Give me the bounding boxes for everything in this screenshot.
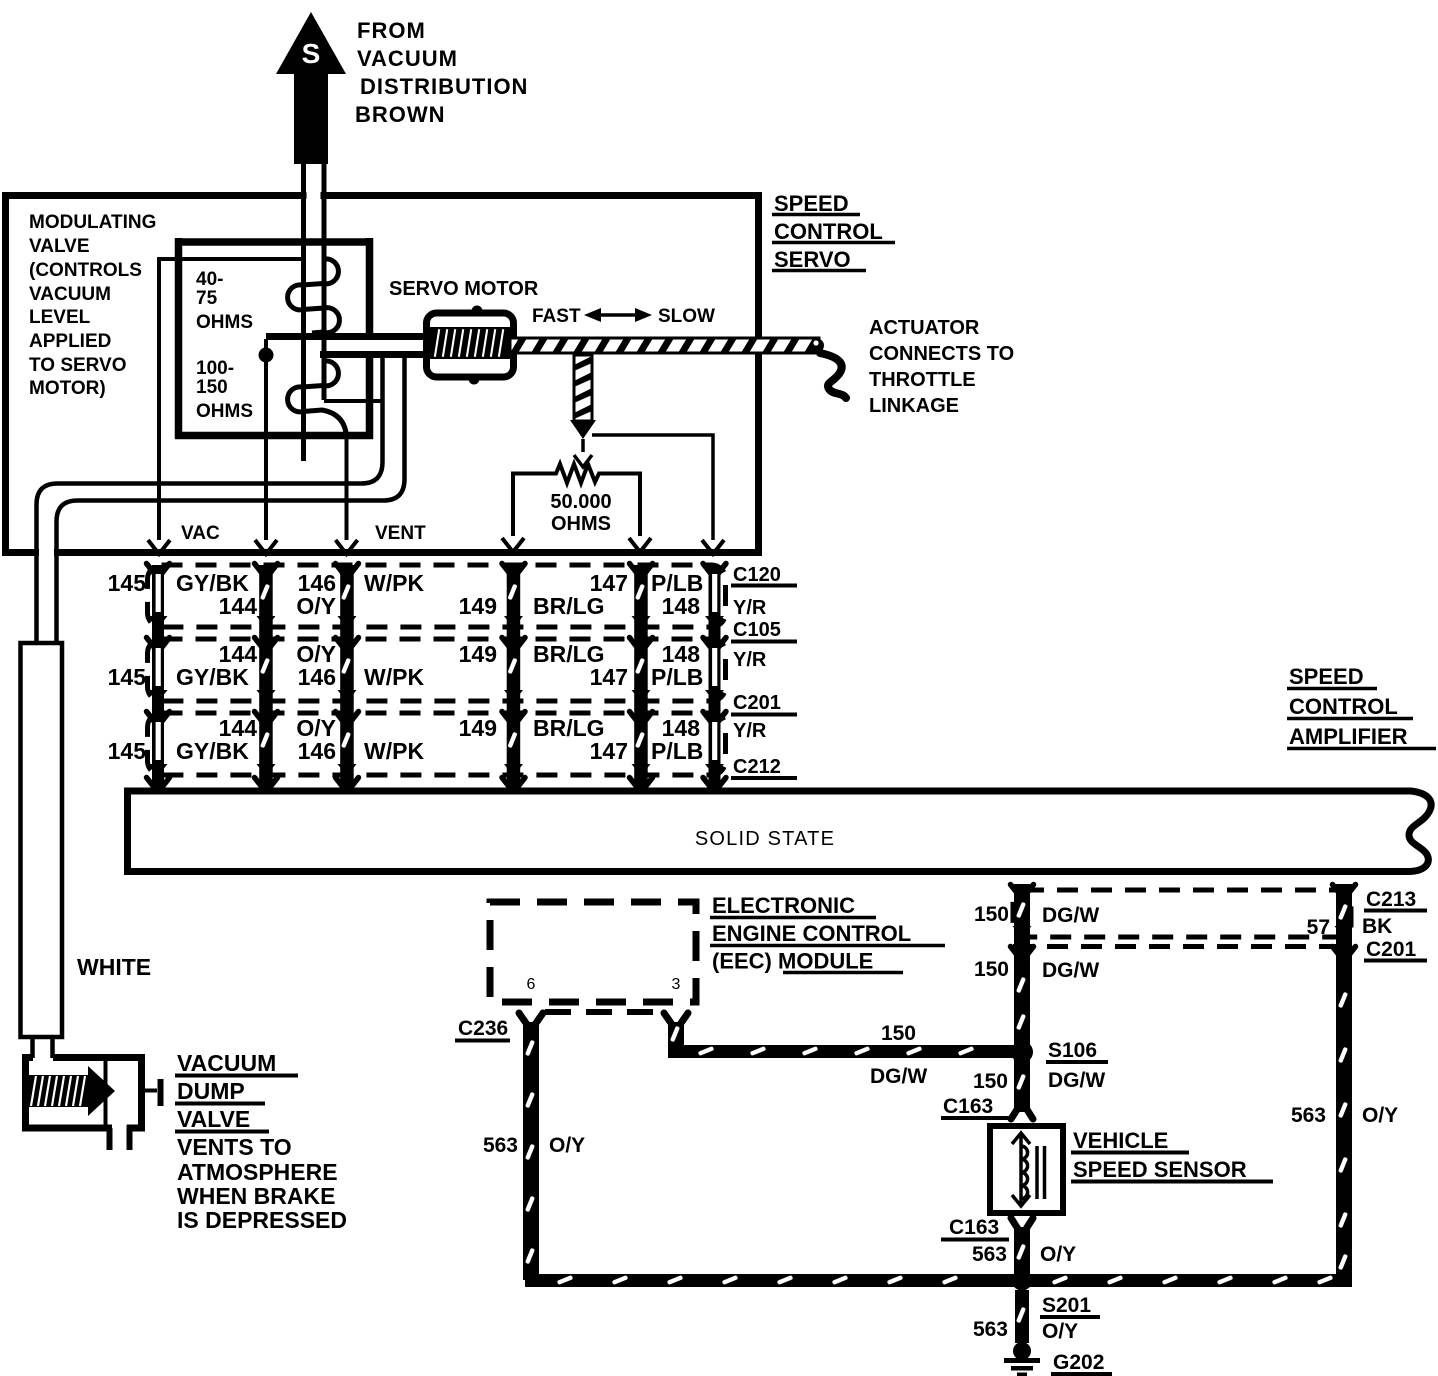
- actuator rod end: [810, 339, 824, 353]
- wire 150 DG/W from pin 3: [664, 1013, 1014, 1088]
- label ACTUATOR CONNECTS TO THROTTLE LINKAGE: [869, 317, 1014, 417]
- svg-text:144: 144: [219, 593, 258, 619]
- svg-text:BK: BK: [1362, 915, 1392, 938]
- svg-text:SERVO: SERVO: [774, 247, 851, 272]
- bottom horizontal wire 563: [525, 1274, 1345, 1287]
- vacuum passage walls to servo motor: [266, 333, 429, 340]
- connector row 2 dashed outline: [148, 639, 726, 701]
- label VACUUM DUMP VALVE: [175, 1050, 347, 1233]
- ground G202: [1004, 1342, 1112, 1376]
- svg-text:VAC: VAC: [181, 523, 220, 544]
- svg-text:OHMS: OHMS: [551, 513, 611, 535]
- svg-text:150: 150: [973, 1070, 1008, 1093]
- svg-text:C212: C212: [733, 756, 781, 778]
- electronic engine control EEC module dashed box: [490, 902, 696, 1002]
- svg-text:S: S: [302, 38, 321, 69]
- svg-text:ENGINE CONTROL: ENGINE CONTROL: [712, 921, 911, 946]
- svg-text:50.000: 50.000: [550, 491, 611, 513]
- svg-text:147: 147: [590, 664, 628, 690]
- svg-text:WHITE: WHITE: [77, 954, 151, 980]
- wire S106 to C163: [1011, 1060, 1033, 1119]
- svg-text:SPEED: SPEED: [774, 191, 849, 216]
- svg-text:GY/BK: GY/BK: [176, 738, 249, 764]
- svg-text:O/Y: O/Y: [1362, 1104, 1398, 1127]
- svg-text:ACTUATOR: ACTUATOR: [869, 317, 980, 339]
- svg-text:VACUUM: VACUUM: [357, 46, 458, 71]
- svg-text:VALVE: VALVE: [29, 236, 90, 257]
- speed control amplifier box SOLID STATE: [124, 788, 1431, 875]
- svg-text:LEVEL: LEVEL: [29, 307, 91, 328]
- speed control servo box: [6, 189, 759, 558]
- svg-text:DG/W: DG/W: [1042, 904, 1099, 927]
- wire bar column 3: [336, 564, 359, 792]
- white hose sleeve: [21, 643, 63, 1037]
- vacuum S-tube: [304, 164, 383, 461]
- svg-text:100-: 100-: [196, 358, 234, 379]
- svg-text:GY/BK: GY/BK: [176, 664, 249, 690]
- svg-text:S106: S106: [1048, 1039, 1097, 1062]
- svg-text:P/LB: P/LB: [651, 738, 703, 764]
- svg-text:146: 146: [298, 664, 336, 690]
- svg-text:VALVE: VALVE: [177, 1106, 250, 1132]
- svg-text:O/Y: O/Y: [549, 1134, 585, 1157]
- svg-text:DG/W: DG/W: [870, 1065, 927, 1088]
- svg-text:C236: C236: [458, 1017, 508, 1040]
- vehicle speed sensor: [990, 1126, 1063, 1213]
- svg-text:563: 563: [972, 1243, 1007, 1266]
- wire S201 to ground: [1015, 1290, 1029, 1343]
- connector C120: [731, 564, 797, 778]
- connector C236 dashed mating line: [545, 1009, 660, 1015]
- svg-text:Y/R: Y/R: [733, 720, 767, 742]
- wire 563 O/Y below sensor: [972, 1227, 1076, 1273]
- svg-text:MOTOR): MOTOR): [29, 378, 106, 399]
- svg-text:150: 150: [881, 1022, 916, 1045]
- svg-text:DISTRIBUTION: DISTRIBUTION: [360, 74, 528, 99]
- svg-text:O/Y: O/Y: [296, 593, 336, 619]
- vacuum dump valve body: [22, 1054, 161, 1150]
- svg-text:6: 6: [527, 976, 536, 993]
- svg-text:LINKAGE: LINKAGE: [869, 395, 959, 417]
- vacuum tube to dump valve outer line: [37, 354, 383, 643]
- svg-text:40-: 40-: [196, 269, 223, 290]
- label 100-150 OHMS: [196, 358, 253, 422]
- svg-text:APPLIED: APPLIED: [29, 331, 111, 352]
- svg-text:146: 146: [298, 738, 336, 764]
- svg-text:145: 145: [108, 738, 147, 764]
- label FAST SLOW with arrows: [532, 306, 715, 327]
- modulating valve coil lower: [288, 361, 347, 437]
- svg-text:SOLID STATE: SOLID STATE: [695, 828, 835, 850]
- actuator rod hatched: [510, 338, 819, 353]
- actuator hook to throttle linkage: [820, 353, 846, 398]
- svg-text:OHMS: OHMS: [196, 312, 253, 333]
- label MODULATING VALVE (CONTROLS VACUUM LEVEL APPLIED TO SERVO MOTOR): [29, 212, 156, 399]
- svg-text:145: 145: [108, 570, 147, 596]
- svg-text:ELECTRONIC: ELECTRONIC: [712, 893, 855, 918]
- svg-text:57: 57: [1307, 916, 1330, 939]
- svg-text:149: 149: [459, 641, 497, 667]
- wire from junction to passage: [264, 339, 268, 355]
- svg-text:W/PK: W/PK: [364, 570, 424, 596]
- svg-text:SPEED: SPEED: [1289, 664, 1364, 689]
- svg-text:C201: C201: [1366, 938, 1417, 961]
- svg-text:FROM: FROM: [357, 18, 426, 43]
- svg-text:TO SERVO: TO SERVO: [29, 355, 127, 376]
- svg-text:OHMS: OHMS: [196, 401, 253, 422]
- svg-text:149: 149: [459, 715, 497, 741]
- hose neck: [33, 1037, 53, 1058]
- svg-text:W/PK: W/PK: [364, 738, 424, 764]
- svg-text:MODULATING: MODULATING: [29, 212, 156, 233]
- svg-text:150: 150: [196, 377, 228, 398]
- servo motor M1: [427, 306, 514, 385]
- svg-text:SLOW: SLOW: [658, 306, 715, 327]
- vertical hatched link from rod: [570, 355, 596, 467]
- svg-text:C201: C201: [733, 692, 781, 714]
- svg-text:(EEC) MODULE: (EEC) MODULE: [712, 949, 873, 974]
- wire VENT from coil: [336, 437, 358, 554]
- svg-text:O/Y: O/Y: [1040, 1243, 1076, 1266]
- svg-text:(CONTROLS: (CONTROLS: [29, 260, 142, 281]
- row wire labels: [108, 570, 704, 764]
- svg-text:S201: S201: [1042, 1294, 1091, 1317]
- svg-text:150: 150: [974, 903, 1009, 926]
- wire bar column 6: [703, 564, 726, 792]
- svg-text:75: 75: [196, 288, 218, 309]
- svg-text:VACUUM: VACUUM: [29, 284, 111, 305]
- connector row 3 dashed outline: [148, 713, 726, 775]
- svg-text:CONNECTS TO: CONNECTS TO: [869, 343, 1014, 365]
- svg-text:C163: C163: [943, 1095, 993, 1118]
- splice S201: [1012, 1270, 1033, 1291]
- wire from link to pin (right vent): [592, 435, 724, 554]
- svg-text:P/LB: P/LB: [651, 664, 703, 690]
- wire VAC middle from junction: [255, 362, 277, 554]
- svg-text:147: 147: [590, 738, 628, 764]
- label ELECTRONIC ENGINE CONTROL (EEC) MODULE: [712, 893, 911, 974]
- wire bar column 4: [502, 564, 525, 792]
- svg-text:CONTROL: CONTROL: [1289, 694, 1398, 719]
- svg-text:VENT: VENT: [375, 523, 426, 544]
- dump valve spring: [28, 1075, 88, 1107]
- svg-text:SPEED SENSOR: SPEED SENSOR: [1073, 1157, 1247, 1182]
- svg-text:C105: C105: [733, 619, 781, 641]
- connector C163 upper: [941, 1095, 1009, 1118]
- svg-text:149: 149: [459, 593, 497, 619]
- label FROM VACUUM DISTRIBUTION BROWN: [355, 18, 528, 127]
- svg-text:DG/W: DG/W: [1042, 959, 1099, 982]
- svg-text:145: 145: [108, 664, 147, 690]
- svg-text:AMPLIFIER: AMPLIFIER: [1289, 724, 1408, 749]
- modulating valve box: [175, 238, 373, 439]
- splice S106: [1011, 1041, 1033, 1063]
- svg-text:VENTS TO: VENTS TO: [177, 1134, 292, 1160]
- vacuum tube to dump valve inner line: [57, 354, 405, 643]
- wire bar column 5: [630, 564, 653, 792]
- svg-text:THROTTLE: THROTTLE: [869, 369, 976, 391]
- svg-text:C213: C213: [1366, 888, 1416, 911]
- svg-text:563: 563: [1291, 1104, 1326, 1127]
- wire 57 BK right bar from amplifier: [1333, 884, 1356, 1287]
- connector C163 lower: [941, 1216, 1033, 1240]
- svg-text:563: 563: [483, 1134, 518, 1157]
- label VEHICLE SPEED SENSOR: [1073, 1128, 1247, 1182]
- svg-text:C163: C163: [949, 1216, 999, 1239]
- svg-text:WHEN BRAKE: WHEN BRAKE: [177, 1183, 335, 1209]
- svg-text:C120: C120: [733, 564, 781, 586]
- svg-text:DG/W: DG/W: [1048, 1069, 1105, 1092]
- svg-text:BR/LG: BR/LG: [533, 593, 605, 619]
- wire 563 O/Y left vertical: [483, 1013, 585, 1280]
- label SPEED CONTROL AMPLIFIER: [1287, 664, 1436, 749]
- wire bar column 2: [255, 564, 278, 792]
- svg-text:VEHICLE: VEHICLE: [1073, 1128, 1168, 1153]
- modulating valve coil upper: [288, 259, 340, 333]
- wire 150 DG/W left bar from amplifier: [1011, 884, 1034, 1062]
- svg-text:FAST: FAST: [532, 306, 581, 327]
- svg-text:O/Y: O/Y: [1042, 1320, 1078, 1343]
- svg-text:Y/R: Y/R: [733, 597, 767, 619]
- svg-text:Y/R: Y/R: [733, 649, 767, 671]
- connector C213 C201 dashed rows: [1013, 890, 1352, 947]
- svg-text:ATMOSPHERE: ATMOSPHERE: [177, 1159, 338, 1185]
- svg-text:DUMP: DUMP: [177, 1078, 245, 1104]
- connector row 1 dashed outline: [148, 565, 726, 627]
- dump valve plunger arrow: [88, 1066, 115, 1116]
- svg-text:CONTROL: CONTROL: [774, 219, 883, 244]
- svg-text:3: 3: [672, 976, 681, 993]
- svg-text:VACUUM: VACUUM: [177, 1050, 276, 1076]
- wire labels 150 DG/W 57: [974, 888, 1417, 982]
- svg-text:IS DEPRESSED: IS DEPRESSED: [177, 1207, 347, 1233]
- svg-text:563: 563: [973, 1318, 1008, 1341]
- label SPEED CONTROL SERVO: [772, 191, 895, 272]
- vacuum supply arrow S: [276, 12, 346, 164]
- node junction dot: [259, 348, 274, 363]
- svg-text:W/PK: W/PK: [364, 664, 424, 690]
- svg-text:150: 150: [974, 958, 1009, 981]
- label 40-75 OHMS: [196, 269, 253, 333]
- svg-text:148: 148: [662, 593, 701, 619]
- wire bar column 1: [147, 564, 170, 792]
- svg-text:SERVO MOTOR: SERVO MOTOR: [389, 278, 539, 300]
- feedback potentiometer 50.000 OHMS: [502, 464, 651, 552]
- wire VAC left: [148, 259, 302, 554]
- svg-text:BROWN: BROWN: [355, 102, 446, 127]
- svg-text:G202: G202: [1053, 1351, 1104, 1374]
